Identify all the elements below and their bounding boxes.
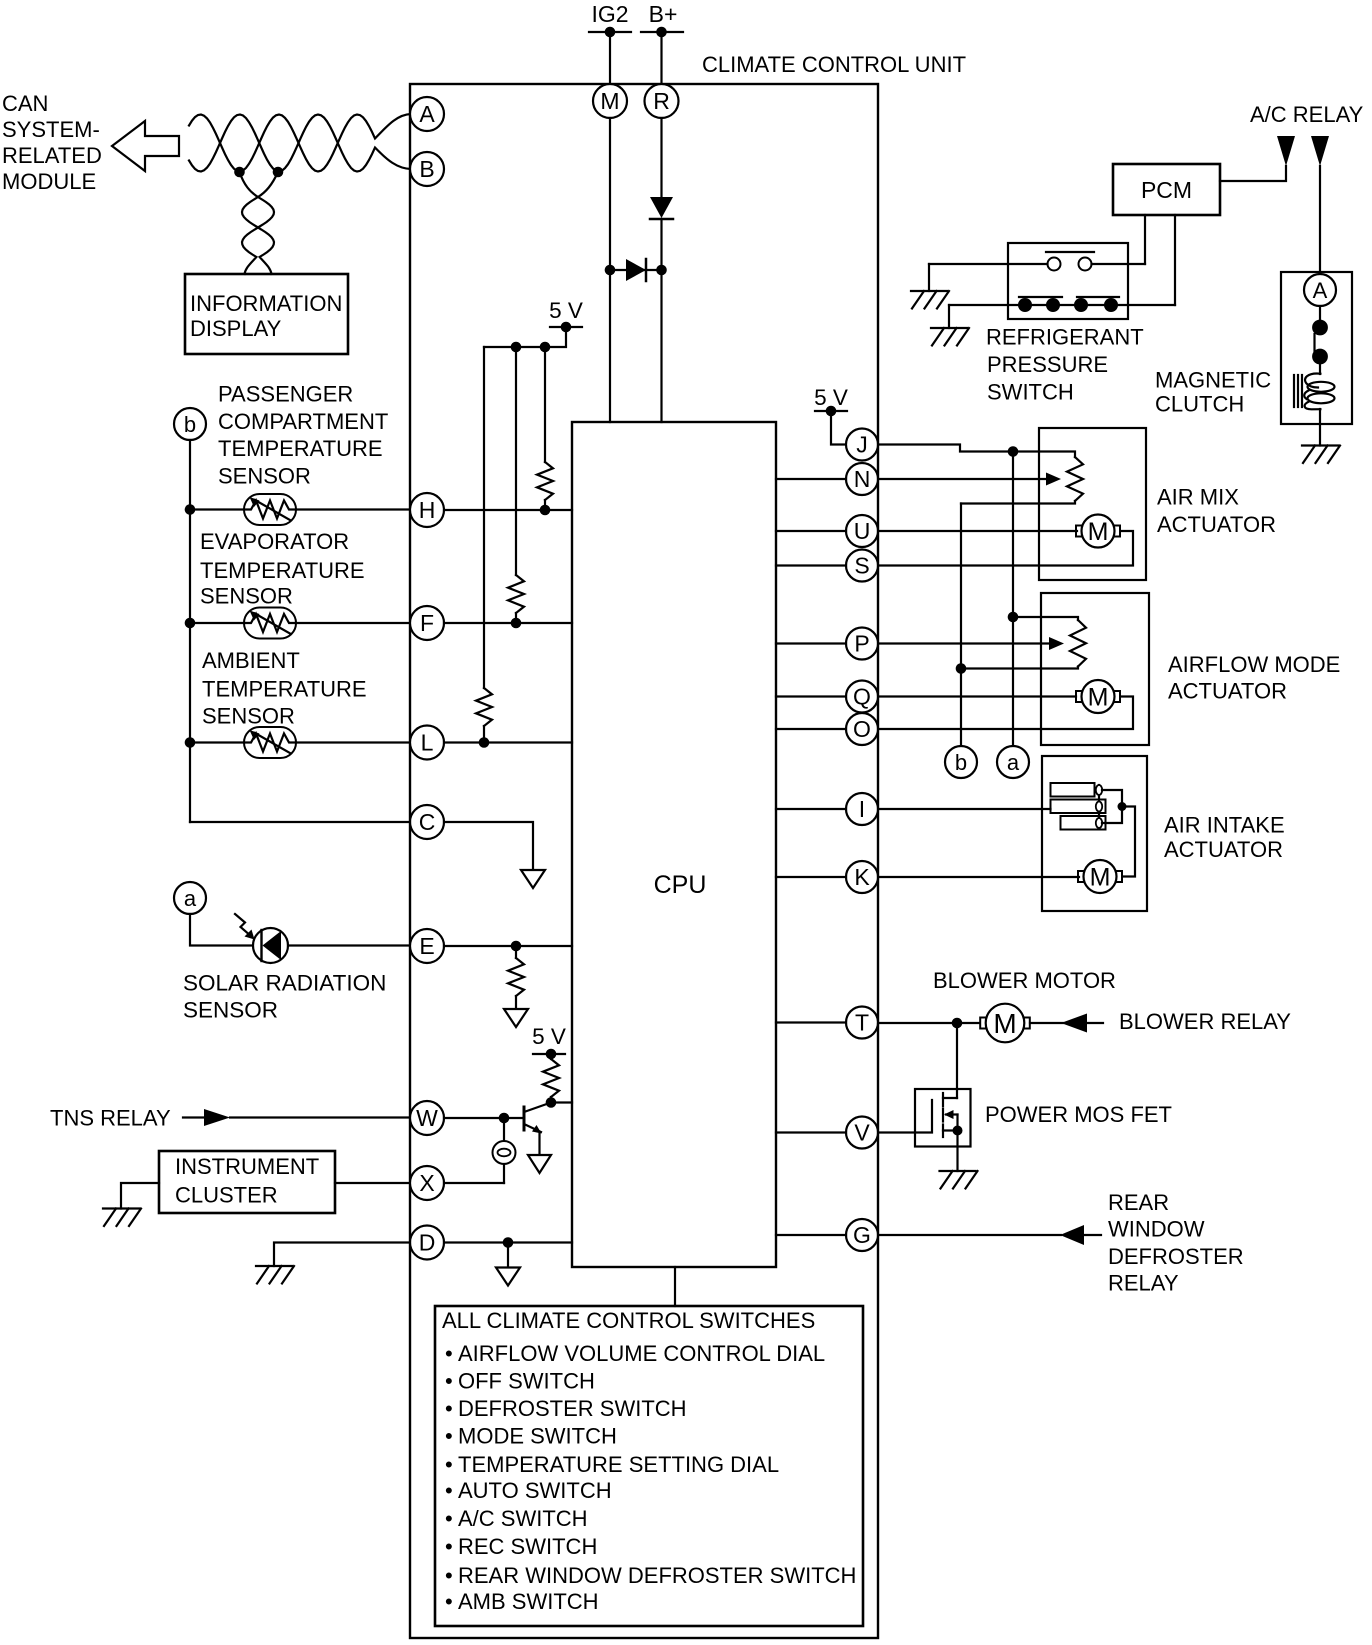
node b (actuator) bbox=[945, 746, 977, 778]
label TNS RELAY bbox=[50, 1106, 171, 1131]
clutch coil core bbox=[1294, 375, 1302, 407]
svg-text:OFF SWITCH: OFF SWITCH bbox=[458, 1369, 595, 1394]
svg-text:SENSOR: SENSOR bbox=[218, 464, 311, 489]
CPU U1 box bbox=[572, 422, 776, 1267]
terminal E bbox=[410, 929, 444, 963]
label B+ bbox=[649, 1, 678, 27]
svg-text:a: a bbox=[1007, 750, 1020, 775]
ground arrow (Q1 emitter) bbox=[528, 1155, 551, 1173]
wire a to pot2 bbox=[1013, 617, 1078, 620]
wire upper ground lead bbox=[928, 264, 930, 291]
svg-text:TEMPERATURE SETTING DIAL: TEMPERATURE SETTING DIAL bbox=[458, 1452, 779, 1477]
wire R4 down bbox=[515, 996, 517, 1009]
label INSTRUMENT CLUSTER bbox=[175, 1154, 319, 1208]
svg-text:TEMPERATURE: TEMPERATURE bbox=[218, 436, 383, 461]
svg-text:POWER MOS FET: POWER MOS FET bbox=[985, 1102, 1172, 1127]
terminal C bbox=[410, 805, 444, 839]
label IG2 bbox=[591, 1, 628, 27]
svg-text:a: a bbox=[184, 886, 197, 911]
wire N wiper bbox=[878, 478, 1046, 480]
terminal O bbox=[846, 713, 878, 745]
thermistor ambient bbox=[244, 727, 296, 758]
arrow from A/C relay (left) bbox=[1277, 136, 1295, 166]
svg-text:PRESSURE: PRESSURE bbox=[987, 352, 1108, 377]
wire P wiper bbox=[878, 642, 1049, 644]
wire IG2 to M bbox=[609, 32, 611, 85]
wire B+ to R bbox=[660, 32, 662, 85]
wire CPU to U bbox=[776, 530, 846, 532]
wire TNS to W bbox=[230, 1116, 410, 1118]
wire PCM leg 1 bbox=[1144, 215, 1146, 264]
svg-text:5 V: 5 V bbox=[532, 1024, 566, 1049]
svg-text:TEMPERATURE: TEMPERATURE bbox=[200, 558, 365, 583]
label PASSENGER COMPARTMENT TEMPERATURE SENSOR bbox=[218, 382, 388, 489]
wire Q to motor bbox=[878, 695, 1076, 697]
svg-text:SENSOR: SENSOR bbox=[200, 584, 293, 609]
svg-text:•: • bbox=[445, 1506, 453, 1531]
svg-text:BLOWER RELAY: BLOWER RELAY bbox=[1119, 1009, 1291, 1034]
solar photodiode bbox=[235, 914, 288, 963]
wire motor to relay arrow bbox=[1030, 1022, 1063, 1024]
wire W to base bbox=[444, 1113, 524, 1124]
information display box bbox=[185, 274, 348, 354]
svg-text:B: B bbox=[419, 156, 434, 182]
terminal X bbox=[410, 1166, 444, 1200]
svg-text:AMBIENT: AMBIENT bbox=[202, 648, 300, 673]
climate control unit box bbox=[410, 84, 878, 1638]
wire clutch ground lead bbox=[1319, 409, 1321, 446]
wire bridge bbox=[610, 269, 662, 271]
wire 5V to R5 bbox=[550, 1054, 552, 1059]
terminal B bbox=[410, 152, 444, 186]
svg-text:COMPARTMENT: COMPARTMENT bbox=[218, 409, 388, 434]
MOSFET Q2 symbol bbox=[878, 1093, 963, 1171]
svg-text:SWITCH: SWITCH bbox=[987, 380, 1074, 405]
svg-text:ALL CLIMATE CONTROL SWITCHES: ALL CLIMATE CONTROL SWITCHES bbox=[442, 1308, 815, 1333]
svg-text:G: G bbox=[853, 1222, 871, 1248]
svg-text:b: b bbox=[184, 412, 196, 437]
terminal V bbox=[846, 1117, 878, 1149]
air intake actuator box bbox=[1042, 756, 1147, 911]
svg-text:RELAY: RELAY bbox=[1108, 1271, 1179, 1296]
svg-text:MODE SWITCH: MODE SWITCH bbox=[458, 1424, 617, 1449]
wire J to pot bbox=[878, 445, 1075, 458]
svg-text:T: T bbox=[855, 1010, 869, 1036]
wire display twisted pair bbox=[240, 172, 279, 274]
svg-text:INFORMATION: INFORMATION bbox=[190, 291, 342, 316]
air mix potentiometer bbox=[1067, 457, 1083, 501]
power MOS FET box bbox=[915, 1089, 971, 1147]
wire CPU to G bbox=[776, 1234, 846, 1236]
ground arrow (E) bbox=[504, 1009, 528, 1027]
wire a line bbox=[1008, 452, 1019, 747]
wire CPU to O bbox=[776, 728, 846, 730]
label MAGNETIC CLUTCH bbox=[1155, 368, 1271, 417]
arrow P wiper bbox=[1049, 637, 1064, 650]
svg-text:M: M bbox=[1088, 518, 1109, 546]
svg-text:MAGNETIC: MAGNETIC bbox=[1155, 368, 1271, 393]
label SOLAR RADIATION SENSOR bbox=[183, 971, 386, 1023]
svg-text:5 V: 5 V bbox=[549, 298, 583, 323]
wire relay to PCM bbox=[1220, 166, 1286, 181]
label 5 V (sensor rail) bbox=[549, 298, 583, 323]
wire intake contacts bbox=[1102, 790, 1135, 877]
wire O to motor bbox=[878, 697, 1133, 730]
ground (pressure switch 1) bbox=[911, 291, 949, 309]
node a (solar sensor) bbox=[174, 882, 206, 914]
ground arrow (D) bbox=[496, 1268, 520, 1286]
wire upper row bbox=[929, 263, 1145, 265]
wire clutch coil lead bbox=[1319, 364, 1321, 374]
svg-text:N: N bbox=[854, 466, 871, 492]
thermistor passenger bbox=[244, 494, 296, 525]
wire 5V rail bbox=[484, 327, 566, 347]
label REFRIGERANT PRESSURE SWITCH bbox=[986, 325, 1144, 405]
resistor R3 bbox=[476, 688, 492, 726]
label 5 V (lamp driver) bbox=[532, 1024, 566, 1049]
wire K to motor bbox=[878, 876, 1079, 878]
svg-text:F: F bbox=[420, 610, 434, 636]
wire lower ground lead bbox=[948, 305, 950, 328]
wire D pulldown bbox=[507, 1243, 509, 1268]
svg-text:AMB SWITCH: AMB SWITCH bbox=[458, 1589, 599, 1614]
terminal I bbox=[846, 793, 878, 825]
svg-text:ACTUATOR: ACTUATOR bbox=[1157, 512, 1276, 537]
wire S to motor bbox=[878, 531, 1133, 566]
svg-text:R: R bbox=[653, 88, 670, 114]
wire CPU to V bbox=[776, 1131, 846, 1133]
svg-text:I: I bbox=[859, 796, 865, 822]
wire cluster ground bbox=[121, 1183, 159, 1209]
blower motor M bbox=[980, 1004, 1030, 1043]
svg-text:O: O bbox=[853, 716, 871, 742]
svg-text:IG2: IG2 bbox=[591, 1, 628, 27]
terminal W bbox=[410, 1101, 444, 1135]
wire pot bottom to b line bbox=[961, 501, 1075, 504]
terminal S bbox=[846, 550, 878, 582]
wire to L bbox=[297, 741, 410, 743]
svg-text:M: M bbox=[993, 1008, 1016, 1039]
svg-text:•: • bbox=[445, 1534, 453, 1559]
svg-text:B+: B+ bbox=[649, 1, 678, 27]
node B+ tick bbox=[641, 27, 683, 38]
wire rail drop 1 bbox=[544, 347, 546, 462]
wire CPU to P bbox=[776, 642, 846, 644]
wire rail drop 3 bbox=[483, 347, 485, 688]
svg-text:TEMPERATURE: TEMPERATURE bbox=[202, 677, 367, 702]
pressure switch upper contacts bbox=[1046, 252, 1094, 271]
svg-text:M: M bbox=[1088, 684, 1109, 712]
airflow motor M bbox=[1076, 680, 1120, 713]
svg-text:W: W bbox=[416, 1105, 438, 1131]
svg-text:SENSOR: SENSOR bbox=[183, 998, 278, 1023]
pressure switch lower contacts bbox=[1018, 297, 1119, 312]
node a (actuator) bbox=[997, 746, 1029, 778]
wire defroster stub bbox=[1084, 1234, 1101, 1236]
air mix actuator box bbox=[1039, 428, 1146, 580]
svg-text:•: • bbox=[445, 1478, 453, 1503]
wire drain bbox=[956, 1023, 958, 1098]
air intake motor M bbox=[1078, 860, 1122, 893]
ground (MOS FET) bbox=[940, 1171, 978, 1189]
wire C to ground arrow bbox=[444, 822, 533, 870]
wire relay to clutch bbox=[1319, 166, 1321, 276]
svg-text:CPU: CPU bbox=[654, 871, 707, 899]
wire E to CPU bbox=[444, 941, 572, 952]
thermistor evaporator bbox=[244, 608, 296, 639]
label AMBIENT TEMPERATURE SENSOR bbox=[202, 648, 367, 729]
terminal K bbox=[846, 861, 878, 893]
svg-text:C: C bbox=[419, 809, 436, 835]
terminal A bbox=[410, 97, 444, 131]
label CAN SYSTEM-RELATED MODULE bbox=[2, 91, 102, 194]
wire R1 to H bbox=[540, 500, 551, 515]
label A/C RELAY bbox=[1250, 102, 1364, 127]
node 5V tick 2 bbox=[533, 1049, 565, 1060]
label POWER MOS FET bbox=[985, 1102, 1172, 1127]
label REAR WINDOW DEFROSTER RELAY bbox=[1108, 1190, 1244, 1296]
wire CPU to N bbox=[776, 478, 846, 480]
svg-text:b: b bbox=[955, 750, 967, 775]
svg-text:AIRFLOW VOLUME CONTROL DIAL: AIRFLOW VOLUME CONTROL DIAL bbox=[458, 1341, 825, 1366]
wire CPU to S bbox=[776, 564, 846, 566]
svg-text:DISPLAY: DISPLAY bbox=[190, 316, 282, 341]
wire D to CPU bbox=[444, 1237, 572, 1248]
terminal D bbox=[410, 1226, 444, 1260]
svg-text:PASSENGER: PASSENGER bbox=[218, 382, 353, 407]
svg-text:A/C SWITCH: A/C SWITCH bbox=[458, 1506, 588, 1531]
node 5V tick 3 bbox=[815, 406, 847, 417]
svg-text:REC SWITCH: REC SWITCH bbox=[458, 1534, 597, 1559]
label AIR INTAKE ACTUATOR bbox=[1164, 813, 1285, 863]
node IG2 tick bbox=[589, 27, 631, 38]
terminal L bbox=[410, 726, 444, 760]
svg-text:A/C RELAY: A/C RELAY bbox=[1250, 102, 1364, 127]
svg-text:L: L bbox=[421, 730, 434, 756]
wire b chain to C bbox=[190, 821, 410, 823]
air mix motor M bbox=[1076, 515, 1120, 548]
wire F to CPU bbox=[444, 622, 572, 624]
wire L to CPU bbox=[444, 741, 572, 743]
svg-text:AIR INTAKE: AIR INTAKE bbox=[1164, 813, 1285, 838]
all climate control switches box bbox=[435, 1306, 863, 1626]
terminal N bbox=[846, 463, 878, 495]
terminal J bbox=[846, 429, 878, 461]
wire CPU to Q bbox=[776, 695, 846, 697]
arrow from TNS relay bbox=[204, 1109, 230, 1126]
svg-text:DEFROSTER SWITCH: DEFROSTER SWITCH bbox=[458, 1396, 687, 1421]
label CLIMATE CONTROL UNIT bbox=[702, 52, 966, 77]
svg-text:PCM: PCM bbox=[1141, 177, 1192, 203]
terminal F bbox=[410, 606, 444, 640]
diode D2 (bridge, right) bbox=[626, 259, 646, 281]
arrow from A/C relay (right) bbox=[1311, 136, 1329, 166]
resistor R2 bbox=[508, 575, 524, 613]
svg-text:TNS RELAY: TNS RELAY bbox=[50, 1106, 171, 1131]
svg-text:X: X bbox=[419, 1170, 434, 1196]
label BLOWER RELAY bbox=[1119, 1009, 1291, 1034]
magnetic clutch box bbox=[1281, 272, 1352, 424]
svg-text:•: • bbox=[445, 1452, 453, 1477]
node M-R bridge dots bbox=[605, 265, 667, 276]
wire G to relay arrow bbox=[878, 1234, 1061, 1236]
wire 5V to J bbox=[831, 411, 846, 445]
svg-text:•: • bbox=[445, 1563, 453, 1588]
ground (magnetic clutch) bbox=[1302, 446, 1340, 464]
wire diode to E bbox=[288, 944, 410, 946]
ground (instrument cluster) bbox=[103, 1209, 141, 1227]
svg-text:CLUTCH: CLUTCH bbox=[1155, 392, 1244, 417]
intake contact plates bbox=[1051, 783, 1106, 830]
wire a down bbox=[190, 914, 252, 946]
svg-text:AUTO SWITCH: AUTO SWITCH bbox=[458, 1478, 612, 1503]
wire CPU to switches bbox=[674, 1267, 676, 1306]
svg-text:U: U bbox=[854, 518, 871, 544]
svg-text:WINDOW: WINDOW bbox=[1108, 1217, 1205, 1242]
svg-text:REAR: REAR bbox=[1108, 1190, 1169, 1215]
wire M to CPU bbox=[609, 118, 611, 422]
svg-text:CAN: CAN bbox=[2, 91, 48, 116]
resistor R1 bbox=[537, 462, 553, 500]
node sensor junctions bbox=[185, 504, 196, 748]
wire E pulldown bbox=[515, 946, 517, 958]
clutch contact wire bbox=[1319, 306, 1321, 320]
svg-text:D: D bbox=[419, 1230, 436, 1256]
wire R5 to collector bbox=[546, 1097, 557, 1108]
terminal T bbox=[846, 1007, 878, 1039]
svg-text:ACTUATOR: ACTUATOR bbox=[1168, 679, 1287, 704]
svg-text:S: S bbox=[854, 553, 869, 579]
label CPU bbox=[654, 871, 707, 899]
svg-text:Q: Q bbox=[853, 684, 871, 710]
arrow N wiper bbox=[1046, 473, 1061, 486]
wire R3 to L bbox=[479, 726, 490, 748]
transistor Q1 bbox=[524, 1103, 551, 1156]
svg-text:K: K bbox=[854, 864, 870, 890]
airflow potentiometer bbox=[1070, 620, 1086, 667]
resistor R5 bbox=[543, 1059, 559, 1097]
instrument cluster box bbox=[159, 1151, 335, 1213]
wire to H bbox=[297, 508, 410, 510]
svg-text:•: • bbox=[445, 1589, 453, 1614]
wire CAN twisted pair bbox=[189, 114, 411, 172]
wire b line bbox=[956, 504, 967, 747]
arrow from blower relay bbox=[1061, 1014, 1087, 1033]
clutch contacts bbox=[1312, 320, 1328, 365]
terminal M bbox=[593, 84, 627, 118]
svg-text:M: M bbox=[1090, 864, 1111, 892]
resistor R4 bbox=[508, 958, 524, 996]
svg-text:•: • bbox=[445, 1396, 453, 1421]
svg-text:•: • bbox=[445, 1341, 453, 1366]
terminal Q bbox=[846, 681, 878, 713]
svg-text:CLUSTER: CLUSTER bbox=[175, 1183, 278, 1208]
wire F row left bbox=[190, 622, 243, 624]
node b (passenger sensor) bbox=[174, 408, 206, 440]
label AIRFLOW MODE ACTUATOR bbox=[1168, 652, 1340, 704]
svg-text:J: J bbox=[856, 432, 868, 458]
svg-text:•: • bbox=[445, 1369, 453, 1394]
label INFORMATION DISPLAY bbox=[190, 291, 342, 341]
svg-text:REAR WINDOW DEFROSTER SWITCH: REAR WINDOW DEFROSTER SWITCH bbox=[458, 1563, 856, 1588]
svg-text:A: A bbox=[419, 101, 435, 127]
svg-text:REFRIGERANT: REFRIGERANT bbox=[986, 325, 1144, 350]
svg-text:M: M bbox=[600, 88, 619, 114]
terminal R bbox=[645, 84, 679, 118]
wire R lower bbox=[660, 219, 662, 422]
svg-text:A: A bbox=[1313, 278, 1328, 303]
label switches list bbox=[442, 1308, 856, 1614]
wire CPU to K bbox=[776, 876, 846, 878]
svg-text:ACTUATOR: ACTUATOR bbox=[1164, 837, 1283, 862]
node 5V tick bbox=[550, 322, 582, 333]
refrigerant pressure switch box bbox=[1008, 243, 1128, 319]
wire collector to CPU bbox=[551, 1101, 572, 1103]
clutch coil bbox=[1304, 374, 1334, 410]
label 5 V (actuator rail) bbox=[814, 385, 848, 410]
svg-text:SOLAR RADIATION: SOLAR RADIATION bbox=[183, 971, 386, 996]
svg-text:CLIMATE CONTROL UNIT: CLIMATE CONTROL UNIT bbox=[702, 52, 966, 77]
node rail junctions bbox=[511, 342, 551, 353]
label EVAPORATOR TEMPERATURE SENSOR bbox=[200, 529, 365, 609]
svg-text:RELATED: RELATED bbox=[2, 143, 102, 168]
intake contact chain bbox=[1096, 785, 1102, 828]
wire H row left bbox=[190, 508, 243, 510]
PCM box bbox=[1113, 164, 1220, 215]
wire T to motor bbox=[878, 1018, 980, 1029]
wire TNS lead bbox=[183, 1116, 205, 1118]
terminal G bbox=[846, 1219, 878, 1251]
svg-text:DEFROSTER: DEFROSTER bbox=[1108, 1244, 1244, 1269]
wire lower row bbox=[949, 304, 1175, 306]
svg-text:SENSOR: SENSOR bbox=[202, 704, 295, 729]
wire X to lamp bbox=[444, 1182, 504, 1184]
wire PCM leg 2 bbox=[1174, 215, 1176, 305]
wire b down bbox=[189, 440, 191, 822]
wire H to CPU bbox=[444, 509, 572, 511]
wire pot2 bottom to b line bbox=[961, 667, 1078, 669]
svg-text:AIRFLOW MODE: AIRFLOW MODE bbox=[1168, 652, 1340, 677]
svg-text:H: H bbox=[419, 497, 436, 523]
svg-text:V: V bbox=[854, 1120, 870, 1146]
wire cluster to X bbox=[335, 1182, 410, 1184]
terminal A (clutch) bbox=[1304, 274, 1336, 306]
wire L row left bbox=[190, 741, 243, 743]
svg-text:•: • bbox=[445, 1424, 453, 1449]
lamp (illumination) bbox=[493, 1118, 516, 1183]
wire CPU to I bbox=[776, 808, 846, 810]
terminal H bbox=[410, 493, 444, 527]
wire D left ground bbox=[274, 1243, 410, 1267]
ground arrow (C) bbox=[521, 870, 545, 888]
svg-text:EVAPORATOR: EVAPORATOR bbox=[200, 529, 349, 554]
wire rail drop 2 bbox=[515, 347, 517, 575]
diode D1 (B+ line, down) bbox=[650, 197, 673, 219]
airflow mode actuator box bbox=[1041, 593, 1149, 745]
wire to F bbox=[297, 622, 410, 624]
svg-text:P: P bbox=[854, 631, 869, 657]
label AIR MIX ACTUATOR bbox=[1157, 485, 1276, 538]
terminal U bbox=[846, 515, 878, 547]
svg-text:SYSTEM-: SYSTEM- bbox=[2, 117, 100, 142]
svg-text:BLOWER MOTOR: BLOWER MOTOR bbox=[933, 968, 1116, 993]
wire I to intake bbox=[878, 808, 1051, 810]
svg-text:E: E bbox=[419, 933, 434, 959]
label BLOWER MOTOR bbox=[933, 968, 1116, 993]
ground (D) bbox=[256, 1266, 294, 1284]
terminal P bbox=[846, 628, 878, 660]
wire CPU to T bbox=[776, 1021, 846, 1023]
